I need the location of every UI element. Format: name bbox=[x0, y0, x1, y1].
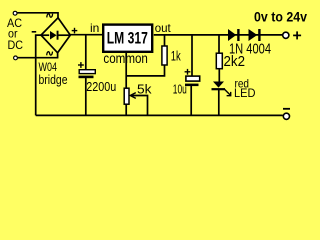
svg-text:DC: DC bbox=[8, 38, 24, 52]
svg-text:common: common bbox=[103, 50, 147, 66]
svg-text:2k2: 2k2 bbox=[224, 53, 246, 70]
svg-text:5k: 5k bbox=[137, 82, 152, 97]
svg-text:10u: 10u bbox=[173, 83, 187, 97]
svg-text:1k: 1k bbox=[171, 47, 182, 63]
svg-text:out: out bbox=[155, 21, 172, 35]
svg-text:LED: LED bbox=[234, 86, 256, 100]
svg-text:in: in bbox=[90, 21, 99, 35]
svg-text:bridge: bridge bbox=[39, 72, 68, 87]
svg-text:2200u: 2200u bbox=[86, 80, 116, 94]
svg-text:LM 317: LM 317 bbox=[107, 30, 148, 48]
svg-text:0v to 24v: 0v to 24v bbox=[254, 10, 307, 25]
